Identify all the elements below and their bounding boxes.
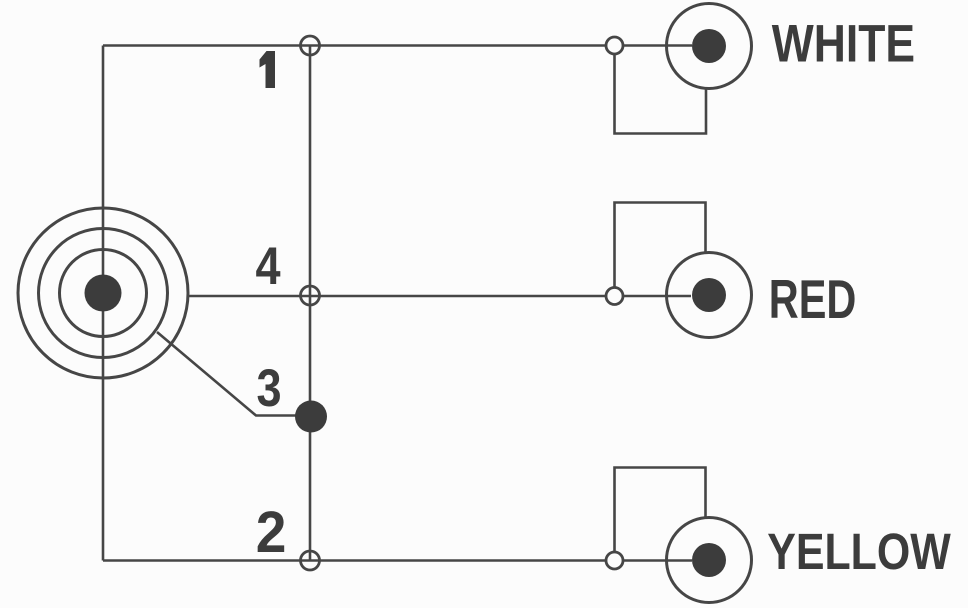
wire: YELLOW plug shield bracket bbox=[615, 468, 706, 553]
svg-text:3: 3 bbox=[256, 359, 281, 418]
node pin 1 (open junction on bus) bbox=[301, 36, 320, 55]
svg-text:RED: RED bbox=[769, 269, 857, 330]
node pin 2 (open junction on bus) bbox=[301, 551, 320, 570]
svg-text:WHITE: WHITE bbox=[772, 15, 915, 74]
RCA plug WHITE: tip (filled) bbox=[692, 29, 726, 63]
RCA plug YELLOW: tip (filled) bbox=[692, 543, 726, 577]
RCA plug RED: outer circle bbox=[667, 253, 752, 338]
connector J1 (jack, rear view) outer ring bbox=[18, 208, 188, 378]
RCA plug YELLOW: outer circle bbox=[667, 518, 752, 603]
connector J1 center pin (filled) bbox=[85, 275, 122, 312]
wire: top horizontal (pin 1 net to WHITE plug tip) bbox=[103, 44, 692, 47]
node: open terminal at YELLOW plug bbox=[606, 552, 623, 569]
connector J1 inner ring bbox=[60, 250, 147, 337]
wire: vertical bus line bbox=[309, 46, 312, 561]
wire: middle horizontal (pin 4 net to RED plug tip) bbox=[189, 295, 691, 298]
wire: left vertical from pin1 corner down through jack to pin2 wire bbox=[102, 46, 105, 561]
wire: RED plug shield bracket bbox=[615, 203, 706, 288]
svg-text:2: 2 bbox=[256, 500, 287, 565]
pin label 1 bbox=[260, 51, 276, 88]
node pin 4 (open junction on bus) bbox=[301, 286, 320, 305]
RCA plug WHITE: outer circle bbox=[667, 4, 752, 89]
connector J1 middle ring bbox=[39, 229, 168, 358]
RCA plug RED: tip (filled) bbox=[692, 278, 726, 312]
wire: WHITE plug shield bracket bbox=[615, 54, 707, 134]
node: open terminal at WHITE plug bbox=[606, 37, 623, 54]
node: open terminal at RED plug bbox=[606, 288, 623, 305]
wire: pin 3 diagonal from jack sleeve ring bbox=[157, 332, 311, 416]
svg-text:YELLOW: YELLOW bbox=[767, 522, 951, 579]
svg-text:4: 4 bbox=[255, 237, 281, 296]
node pin 3 (solder dot junction) bbox=[295, 401, 327, 433]
wire: bottom horizontal (pin 2 net to YELLOW plug tip) bbox=[103, 559, 692, 562]
